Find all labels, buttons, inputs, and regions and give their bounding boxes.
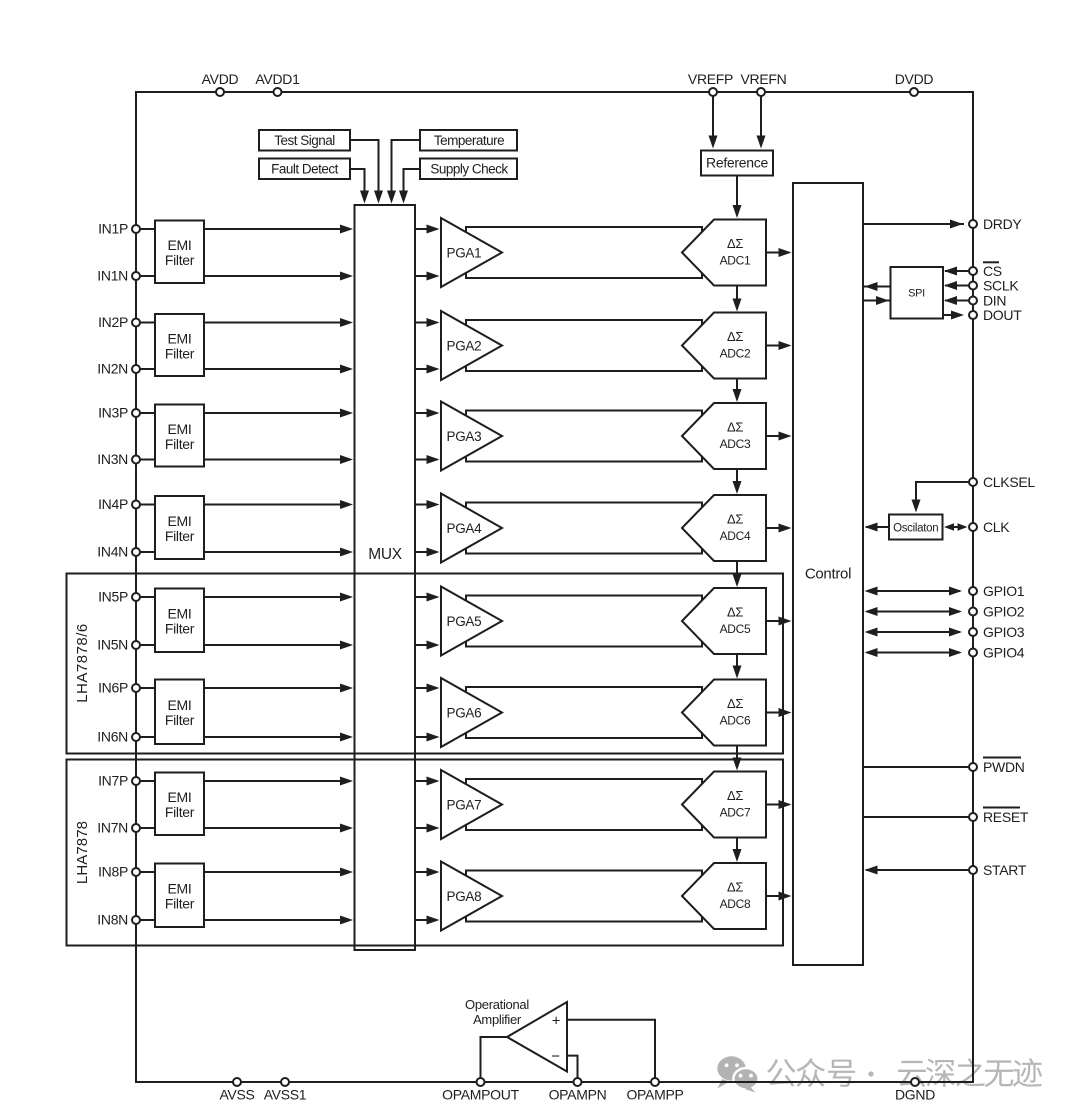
- ADC1: [682, 220, 766, 286]
- pin DVDD: [895, 71, 934, 96]
- EMI filter 3: [155, 405, 204, 467]
- op-amp label: [465, 997, 529, 1027]
- wire MUX to PGA5 (P): [415, 593, 440, 602]
- pin SCLK: [969, 277, 1019, 293]
- wire Fault Detect to MUX: [350, 169, 369, 204]
- svg-text:IN6P: IN6P: [98, 680, 128, 696]
- wire Control to RESET: [863, 816, 969, 818]
- amplifier PGA8: [441, 862, 502, 931]
- wire EMI filter 3 to MUX (P): [204, 409, 353, 418]
- wire IN2P to EMI filter: [140, 322, 155, 324]
- pin IN7N: [97, 820, 140, 836]
- svg-text:IN5P: IN5P: [98, 589, 128, 605]
- wire ADC2 to Control: [766, 341, 792, 350]
- svg-text:IN2P: IN2P: [98, 314, 128, 330]
- svg-text:Oscilaton: Oscilaton: [893, 522, 938, 534]
- svg-text:SPI: SPI: [908, 288, 925, 300]
- svg-text:−: −: [551, 1048, 560, 1065]
- wire MUX to PGA4 (P): [415, 500, 440, 509]
- wire ADC3 to ADC4: [733, 469, 742, 494]
- wire Control to DRDY: [863, 220, 964, 229]
- svg-text:OPAMPN: OPAMPN: [549, 1087, 607, 1103]
- EMI filter 5: [155, 589, 204, 653]
- ADC7: [682, 772, 766, 838]
- signal bus PGA4 to ADC4: [466, 503, 702, 554]
- svg-text:PGA3: PGA3: [447, 429, 482, 444]
- svg-text:START: START: [983, 862, 1027, 878]
- EMI filter 2: [155, 314, 204, 376]
- ADC4: [682, 495, 766, 561]
- svg-text:Filter: Filter: [165, 896, 195, 912]
- wire IN1N to EMI filter: [140, 275, 155, 277]
- wire IN3N to EMI filter: [140, 459, 155, 461]
- svg-text:ΔΣ: ΔΣ: [727, 420, 743, 435]
- wire ADC1 to ADC2: [733, 286, 742, 312]
- signal bus PGA7 to ADC7: [466, 779, 702, 830]
- wire ADC8 to Control: [766, 892, 792, 901]
- pin GPIO4: [969, 644, 1025, 660]
- wire MUX to PGA7 (N): [415, 824, 440, 833]
- svg-text:Filter: Filter: [165, 804, 195, 820]
- ADC6: [682, 680, 766, 746]
- control block: [793, 183, 863, 965]
- wire EMI filter 2 to MUX (P): [204, 318, 353, 327]
- pin OPAMPN: [549, 1078, 607, 1103]
- pin IN2P: [98, 314, 140, 330]
- wire EMI filter 2 to MUX (N): [204, 365, 353, 374]
- svg-text:ADC8: ADC8: [720, 897, 751, 911]
- svg-text:PGA5: PGA5: [447, 614, 482, 629]
- wire MUX to PGA4 (N): [415, 548, 440, 557]
- signal bus PGA8 to ADC8: [466, 871, 702, 922]
- svg-text:LHA7878/6: LHA7878/6: [74, 623, 91, 703]
- svg-text:IN3N: IN3N: [97, 451, 128, 467]
- wire MUX to PGA8 (N): [415, 916, 440, 925]
- svg-text:ADC6: ADC6: [720, 714, 751, 728]
- svg-text:Reference: Reference: [706, 155, 768, 171]
- wire MUX to PGA3 (N): [415, 455, 440, 464]
- wire IN6N to EMI filter: [140, 736, 155, 738]
- wire MUX to PGA2 (P): [415, 318, 440, 327]
- wire ADC1 to Control: [766, 248, 792, 257]
- pin RESET: [969, 808, 1029, 825]
- pin IN4P: [98, 496, 140, 512]
- pin GPIO2: [969, 603, 1025, 619]
- wire IN5P to EMI filter: [140, 596, 155, 598]
- svg-text:EMI: EMI: [168, 330, 192, 346]
- svg-text:IN4N: IN4N: [97, 544, 128, 560]
- wire ADC7 to ADC8: [733, 838, 742, 863]
- svg-text:IN6N: IN6N: [97, 729, 128, 745]
- svg-text:IN2N: IN2N: [97, 361, 128, 377]
- box Oscilaton: [889, 515, 943, 540]
- svg-text:Operational: Operational: [465, 997, 529, 1012]
- svg-text:ΔΣ: ΔΣ: [727, 788, 743, 803]
- svg-text:ΔΣ: ΔΣ: [727, 329, 743, 344]
- wire Oscilaton to CLK (bidirectional): [944, 523, 968, 531]
- wire Control to GPIO1 (bidirectional): [865, 587, 963, 596]
- signal bus PGA3 to ADC3: [466, 411, 702, 462]
- wire Reference to ADC1: [733, 176, 742, 219]
- svg-text:VREFP: VREFP: [688, 71, 733, 87]
- svg-text:Amplifier: Amplifier: [473, 1012, 522, 1027]
- wire EMI filter 6 to MUX (P): [204, 684, 353, 693]
- pin IN7P: [98, 773, 140, 789]
- EMI filter 4: [155, 496, 204, 559]
- wire IN6P to EMI filter: [140, 687, 155, 689]
- box SPI: [891, 267, 944, 319]
- pin IN1N: [97, 268, 140, 284]
- wire op-amp + input to OPAMPP: [567, 1020, 655, 1078]
- svg-text:ADC7: ADC7: [720, 806, 751, 820]
- wire CLKSEL to Oscilaton: [912, 482, 970, 513]
- pin OPAMPP: [626, 1078, 683, 1103]
- svg-text:Filter: Filter: [165, 528, 195, 544]
- op-amp U1: [507, 1002, 567, 1072]
- wire Oscilaton to Control: [865, 523, 890, 532]
- svg-text:Control: Control: [805, 566, 851, 583]
- wire EMI filter 5 to MUX (N): [204, 641, 353, 650]
- pin DGND: [895, 1078, 935, 1103]
- ADC5: [682, 588, 766, 654]
- svg-text:GPIO4: GPIO4: [983, 644, 1025, 660]
- svg-text:ADC5: ADC5: [720, 622, 751, 636]
- svg-text:Filter: Filter: [165, 252, 195, 268]
- pin IN2N: [97, 361, 140, 377]
- pin GPIO3: [969, 624, 1025, 640]
- pin DOUT: [969, 307, 1022, 323]
- ADC2: [682, 313, 766, 379]
- svg-text:GPIO1: GPIO1: [983, 583, 1025, 599]
- svg-text:PGA1: PGA1: [447, 246, 482, 261]
- wire ADC6 to ADC7: [733, 746, 742, 771]
- box Fault Detect: [259, 159, 350, 180]
- wire ADC4 to ADC5: [733, 561, 742, 587]
- wire EMI filter 4 to MUX (P): [204, 500, 353, 509]
- svg-text:AVDD1: AVDD1: [255, 71, 300, 87]
- svg-text:EMI: EMI: [168, 697, 192, 713]
- svg-text:Temperature: Temperature: [434, 133, 504, 148]
- pin IN1P: [98, 221, 140, 237]
- wire MUX to PGA2 (N): [415, 365, 440, 374]
- wire IN3P to EMI filter: [140, 412, 155, 414]
- wire IN1P to EMI filter: [140, 228, 155, 230]
- amplifier PGA1: [441, 218, 502, 287]
- wire EMI filter 1 to MUX (N): [204, 272, 353, 281]
- wire op-amp - input to OPAMPN: [567, 1056, 578, 1078]
- wire DIN to SPI: [944, 296, 969, 305]
- svg-text:+: +: [552, 1012, 561, 1029]
- watermark wechat icon: [717, 1056, 758, 1092]
- EMI filter 7: [155, 773, 204, 836]
- pin IN6P: [98, 680, 140, 696]
- svg-text:GPIO3: GPIO3: [983, 624, 1025, 640]
- wire MUX to PGA6 (N): [415, 733, 440, 742]
- wire EMI filter 5 to MUX (P): [204, 593, 353, 602]
- svg-text:DVDD: DVDD: [895, 71, 934, 87]
- svg-text:EMI: EMI: [168, 421, 192, 437]
- wire ADC2 to ADC3: [733, 379, 742, 403]
- signal bus PGA1 to ADC1: [466, 227, 702, 278]
- wire VREFP to Reference: [709, 96, 718, 149]
- wire MUX to PGA1 (N): [415, 272, 440, 281]
- svg-text:VREFN: VREFN: [741, 71, 787, 87]
- wire IN5N to EMI filter: [140, 644, 155, 646]
- svg-text:OPAMPOUT: OPAMPOUT: [442, 1087, 519, 1103]
- pin DIN: [969, 292, 1006, 308]
- box Temperature: [420, 130, 517, 151]
- ADC3: [682, 403, 766, 469]
- svg-text:OPAMPP: OPAMPP: [626, 1087, 683, 1103]
- svg-text:PGA8: PGA8: [447, 889, 482, 904]
- pin AVSS1: [264, 1078, 307, 1103]
- wire MUX to PGA8 (P): [415, 868, 440, 877]
- wire Control to SPI: [863, 296, 891, 305]
- svg-text:PGA7: PGA7: [447, 798, 482, 813]
- svg-text:EMI: EMI: [168, 237, 192, 253]
- svg-text:PWDN: PWDN: [983, 759, 1025, 775]
- svg-text:AVDD: AVDD: [202, 71, 239, 87]
- wire Control to GPIO4 (bidirectional): [865, 648, 963, 657]
- watermark text: [767, 1058, 1042, 1087]
- svg-text:Supply Check: Supply Check: [430, 162, 508, 177]
- wire START to Control: [865, 866, 970, 875]
- pin START: [969, 862, 1027, 878]
- svg-text:ΔΣ: ΔΣ: [727, 880, 743, 895]
- wire ADC5 to ADC6: [733, 654, 742, 679]
- pin VREFP: [688, 71, 733, 96]
- wire MUX to PGA7 (P): [415, 777, 440, 786]
- svg-text:EMI: EMI: [168, 606, 192, 622]
- svg-text:IN1P: IN1P: [98, 221, 128, 237]
- ADC8: [682, 863, 766, 929]
- svg-text:Filter: Filter: [165, 712, 195, 728]
- wire Supply Check to MUX: [399, 169, 420, 204]
- wire MUX to PGA1 (P): [415, 225, 440, 234]
- wire SCLK to SPI: [944, 281, 969, 290]
- EMI filter 6: [155, 680, 204, 745]
- svg-text:Filter: Filter: [165, 436, 195, 452]
- svg-text:ΔΣ: ΔΣ: [727, 236, 743, 251]
- svg-text:PGA4: PGA4: [447, 521, 483, 536]
- pin GPIO1: [969, 583, 1025, 599]
- wire IN7P to EMI filter: [140, 780, 155, 782]
- pin OPAMPOUT: [442, 1078, 519, 1103]
- pin IN8P: [98, 864, 140, 880]
- wire IN7N to EMI filter: [140, 827, 155, 829]
- svg-text:Test Signal: Test Signal: [274, 133, 335, 148]
- pin CLK: [969, 519, 1010, 535]
- amplifier PGA5: [441, 587, 502, 656]
- wire EMI filter 8 to MUX (P): [204, 868, 353, 877]
- wire IN8N to EMI filter: [140, 919, 155, 921]
- svg-text:PGA6: PGA6: [447, 706, 482, 721]
- svg-text:IN3P: IN3P: [98, 405, 128, 421]
- pin IN3P: [98, 405, 140, 421]
- chip border: [136, 92, 973, 1082]
- svg-text:EMI: EMI: [168, 513, 192, 529]
- signal bus PGA2 to ADC2: [466, 320, 702, 371]
- svg-text:IN7N: IN7N: [97, 820, 128, 836]
- wire IN4P to EMI filter: [140, 504, 155, 506]
- wire SPI to Control: [863, 282, 891, 291]
- amplifier PGA4: [441, 494, 502, 563]
- svg-text:DRDY: DRDY: [983, 216, 1022, 232]
- wire CS to SPI: [944, 267, 969, 276]
- wire Control to GPIO2 (bidirectional): [865, 607, 963, 616]
- wire EMI filter 1 to MUX (P): [204, 225, 353, 234]
- group box LHA7878: [67, 760, 784, 946]
- svg-text:IN1N: IN1N: [97, 268, 128, 284]
- svg-text:IN7P: IN7P: [98, 773, 128, 789]
- amplifier PGA3: [441, 402, 502, 471]
- wire EMI filter 6 to MUX (N): [204, 733, 353, 742]
- wire EMI filter 3 to MUX (N): [204, 455, 353, 464]
- wire Temperature to MUX: [387, 140, 420, 204]
- amplifier PGA6: [441, 678, 502, 747]
- svg-text:ADC4: ADC4: [720, 529, 751, 543]
- svg-text:ADC2: ADC2: [720, 347, 751, 361]
- wire SPI to DOUT: [943, 311, 964, 320]
- wire ADC7 to Control: [766, 800, 792, 809]
- svg-text:Filter: Filter: [165, 621, 195, 637]
- svg-text:GPIO2: GPIO2: [983, 603, 1025, 619]
- svg-text:ADC1: ADC1: [720, 254, 751, 268]
- pin AVSS: [219, 1078, 254, 1103]
- pin IN8N: [97, 912, 140, 928]
- wire VREFN to Reference: [757, 96, 766, 149]
- pin PWDN: [969, 758, 1025, 775]
- svg-text:IN8N: IN8N: [97, 912, 128, 928]
- svg-text:DOUT: DOUT: [983, 307, 1022, 323]
- pin AVDD1: [255, 71, 300, 96]
- wire op-amp output to OPAMPOUT: [481, 1037, 508, 1078]
- svg-text:ADC3: ADC3: [720, 437, 751, 451]
- svg-text:ΔΣ: ΔΣ: [727, 512, 743, 527]
- wire MUX to PGA6 (P): [415, 684, 440, 693]
- wire IN8P to EMI filter: [140, 871, 155, 873]
- wire IN2N to EMI filter: [140, 368, 155, 370]
- svg-text:CLKSEL: CLKSEL: [983, 474, 1035, 490]
- pin IN5N: [97, 637, 140, 653]
- svg-text:IN8P: IN8P: [98, 864, 128, 880]
- box Supply Check: [420, 159, 517, 180]
- svg-text:MUX: MUX: [368, 546, 403, 563]
- svg-text:EMI: EMI: [168, 881, 192, 897]
- wire EMI filter 7 to MUX (N): [204, 824, 353, 833]
- wire EMI filter 8 to MUX (N): [204, 916, 353, 925]
- pin IN6N: [97, 729, 140, 745]
- pin DRDY: [969, 216, 1022, 232]
- signal bus PGA6 to ADC6: [466, 687, 702, 738]
- svg-text:AVSS: AVSS: [219, 1087, 254, 1103]
- pin IN5P: [98, 589, 140, 605]
- svg-text:IN5N: IN5N: [97, 637, 128, 653]
- wire EMI filter 4 to MUX (N): [204, 548, 353, 557]
- group box LHA7878/6: [67, 574, 784, 754]
- EMI filter 8: [155, 864, 204, 928]
- wire MUX to PGA5 (N): [415, 641, 440, 650]
- pin AVDD: [202, 71, 239, 96]
- pin IN3N: [97, 451, 140, 467]
- amplifier PGA7: [441, 770, 502, 839]
- svg-text:Filter: Filter: [165, 345, 195, 361]
- pin CLKSEL: [969, 474, 1035, 490]
- pin IN4N: [97, 544, 140, 560]
- wire ADC3 to Control: [766, 432, 792, 441]
- svg-text:DGND: DGND: [895, 1087, 935, 1103]
- wire IN4N to EMI filter: [140, 551, 155, 553]
- wire Test Signal to MUX: [350, 140, 383, 204]
- wire ADC5 to Control: [766, 617, 792, 626]
- svg-text:Fault Detect: Fault Detect: [271, 162, 339, 177]
- svg-text:EMI: EMI: [168, 789, 192, 805]
- box Reference: [701, 151, 773, 176]
- svg-text:ΔΣ: ΔΣ: [727, 696, 743, 711]
- wire Control to GPIO3 (bidirectional): [865, 628, 963, 637]
- MUX: [355, 205, 416, 950]
- svg-text:SCLK: SCLK: [983, 277, 1019, 293]
- box Test Signal: [259, 130, 350, 151]
- svg-text:IN4P: IN4P: [98, 496, 128, 512]
- pin CS: [969, 262, 1002, 279]
- svg-text:AVSS1: AVSS1: [264, 1087, 307, 1103]
- wire MUX to PGA3 (P): [415, 409, 440, 418]
- svg-text:RESET: RESET: [983, 809, 1029, 825]
- pin VREFN: [741, 71, 787, 96]
- amplifier PGA2: [441, 311, 502, 380]
- EMI filter 1: [155, 221, 204, 284]
- svg-text:CLK: CLK: [983, 519, 1010, 535]
- svg-text:ΔΣ: ΔΣ: [727, 605, 743, 620]
- signal bus PGA5 to ADC5: [466, 596, 702, 647]
- wire Control to PWDN: [863, 766, 969, 768]
- wire EMI filter 7 to MUX (P): [204, 777, 353, 786]
- wire ADC4 to Control: [766, 524, 792, 533]
- svg-text:PGA2: PGA2: [447, 339, 482, 354]
- wire ADC6 to Control: [766, 708, 792, 717]
- svg-text:LHA7878: LHA7878: [74, 821, 91, 884]
